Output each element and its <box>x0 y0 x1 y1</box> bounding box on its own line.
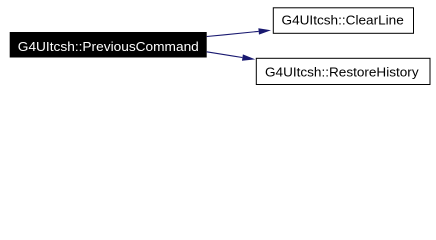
svg-text:G4UItcsh::PreviousCommand: G4UItcsh::PreviousCommand <box>18 39 199 54</box>
svg-text:G4UItcsh::ClearLine: G4UItcsh::ClearLine <box>282 13 404 28</box>
svg-text:G4UItcsh::RestoreHistory: G4UItcsh::RestoreHistory <box>265 64 419 79</box>
